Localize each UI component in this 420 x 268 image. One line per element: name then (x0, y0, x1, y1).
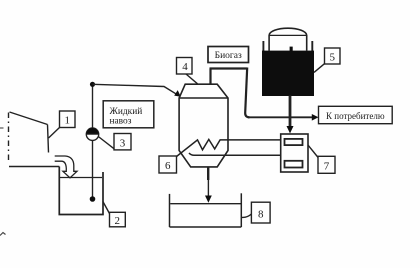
biogas pipe from digester top (209, 69, 211, 84)
feed pipe arrowhead (174, 90, 181, 97)
svg-text:1: 1 (64, 115, 70, 127)
tank 8 right wall (240, 193, 242, 227)
label box 5 (325, 48, 341, 64)
hopper 1 dashed left edge (8, 113, 10, 164)
discharge arrowhead (205, 196, 212, 203)
digester vessel 4 outline (179, 84, 228, 167)
tank 2 (59, 167, 103, 215)
heater bottom element (285, 161, 303, 168)
label box 1 leader (49, 128, 60, 139)
gas holder 5 bell with domed top (269, 28, 307, 50)
heater top element (285, 139, 303, 145)
svg-text:3: 3 (120, 137, 126, 149)
stray scan mark left middle (0, 127, 4, 129)
svg-text:6: 6 (165, 160, 171, 172)
stray scan mark left bottom (0, 233, 6, 236)
tank 2 liquid surface (60, 177, 102, 179)
hopper 1 floor line (9, 166, 59, 168)
pipe to consumer (248, 116, 313, 118)
feed pipe to digester (93, 84, 178, 95)
svg-text:К потребителю: К потребителю (326, 111, 385, 121)
biogas label box (208, 47, 249, 63)
svg-text:2: 2 (115, 215, 121, 227)
gas holder bell chord line (269, 34, 307, 36)
gas holder left wall post (262, 41, 264, 51)
gas holder top tab (290, 47, 293, 52)
digester bottom outlet stem (207, 167, 209, 180)
label box 4 (177, 58, 193, 75)
label box 2 (110, 212, 126, 227)
label box 8 (251, 202, 270, 223)
label box 7 (318, 156, 335, 173)
gas holder 5 tank (filled) (262, 51, 314, 96)
consumer label box (319, 106, 393, 123)
junction node dot (90, 82, 95, 87)
flow arrow (hollow curved) into tank 2 (55, 156, 77, 178)
label box 2 leader (103, 201, 110, 213)
svg-text:5: 5 (329, 52, 335, 64)
hopper 1 top edge (10, 112, 48, 125)
suction inlet dot (90, 196, 96, 202)
biogas pipe down run (245, 68, 249, 118)
discharge pipe to tank 8 (207, 180, 209, 197)
stem arrowhead into heater (287, 126, 294, 134)
svg-text:навоз: навоз (110, 117, 132, 127)
gas holder outlet stem (289, 96, 292, 127)
svg-text:8: 8 (258, 209, 264, 221)
pump 3 (86, 128, 98, 140)
liquid manure label box (103, 101, 154, 128)
heating coil 6 with leader from label (177, 139, 281, 156)
label box 5 leader (314, 64, 325, 73)
svg-text:Биогаз: Биогаз (215, 51, 242, 61)
svg-text:4: 4 (182, 61, 188, 73)
label box 4 leader (186, 74, 198, 84)
label box 3 leader (98, 137, 114, 149)
suction pipe (vertical) (92, 84, 94, 199)
heater (boiler) 7 body (281, 134, 308, 172)
label box 3 (114, 134, 131, 150)
gas holder right wall post (311, 41, 313, 51)
label box 8 leader (241, 214, 251, 217)
svg-text:7: 7 (324, 160, 330, 172)
biogas pipe horizontal run (210, 67, 248, 69)
consumer arrowhead (312, 114, 319, 121)
coil return line to heater (189, 153, 281, 155)
label box 7 leader (308, 145, 318, 157)
tank 8 bottom (170, 226, 242, 228)
label box 6 (159, 156, 177, 173)
tank 8 liquid surface (170, 203, 241, 205)
hopper 1 right edge (48, 125, 49, 153)
svg-text:Жидкий: Жидкий (110, 106, 143, 117)
label box 1 (60, 111, 76, 128)
tank 8 left wall (169, 194, 171, 227)
digester seam line (179, 97, 228, 99)
